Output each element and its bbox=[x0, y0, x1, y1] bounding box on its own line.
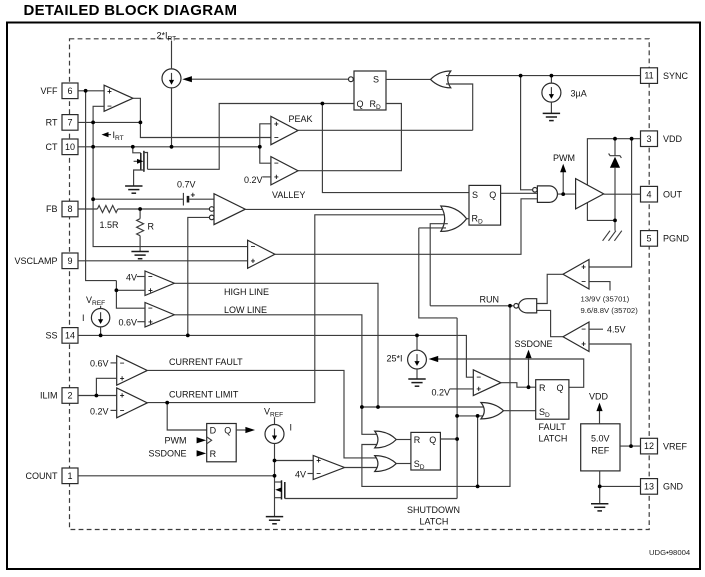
wire shutdown net to OR2 bbox=[419, 228, 457, 318]
label UDG-98004 bbox=[649, 548, 691, 557]
label 0.6V current fault threshold bbox=[90, 359, 109, 369]
pin 2 ILIM bbox=[40, 388, 78, 404]
wire CURRENT LIMIT output bbox=[147, 215, 448, 403]
svg-text:11: 11 bbox=[644, 71, 653, 81]
junction fault latch R / SSDONE arrow bbox=[527, 385, 531, 389]
wire latch U2 S input from OR bbox=[386, 78, 431, 80]
gate OR3 fault latch set OR bbox=[481, 403, 504, 419]
wire 0.2V stub to VALLEY bbox=[263, 176, 271, 178]
svg-text:SSDONE: SSDONE bbox=[515, 339, 553, 349]
wire lowline junction to fault OR input1 bbox=[362, 406, 487, 408]
wire UVLO threshold stub bbox=[589, 282, 610, 291]
junction SYNC line / AND clock branch bbox=[519, 74, 523, 78]
wire OR4 output bbox=[396, 439, 411, 441]
svg-text:12: 12 bbox=[644, 441, 654, 451]
junction oscillator Q / PWM latch S branch bbox=[321, 102, 325, 106]
svg-text:–: – bbox=[274, 159, 279, 168]
svg-text:8: 8 bbox=[67, 204, 72, 214]
gate OR5 shutdown latch S OR bbox=[375, 456, 397, 472]
svg-text:–: – bbox=[148, 272, 153, 281]
wire OR2 output to RD bbox=[467, 218, 469, 220]
wire 2*IRT label stem bbox=[171, 41, 173, 69]
transistor Q2 count discharge MOSFET bbox=[275, 476, 285, 517]
svg-text:HIGH LINE: HIGH LINE bbox=[224, 287, 269, 297]
label LATCH fault bbox=[539, 434, 568, 444]
wire VREF stem above I source bbox=[100, 306, 102, 309]
junction run net / shutdown OR branch bbox=[476, 485, 480, 489]
wire ref output to VREF pin bbox=[620, 445, 641, 447]
svg-text:–: – bbox=[148, 304, 153, 313]
svg-text:SSDONE: SSDONE bbox=[148, 449, 186, 459]
svg-text:ILIM: ILIM bbox=[40, 391, 58, 401]
wire ILIM pin bbox=[78, 395, 117, 397]
svg-text:Q: Q bbox=[429, 435, 436, 445]
wire OR5 output bbox=[396, 463, 411, 465]
svg-text:SS: SS bbox=[45, 331, 57, 341]
svg-text:LATCH: LATCH bbox=[539, 434, 568, 444]
comparator HIGH LINE body bbox=[145, 271, 174, 296]
wire CURRENT FAULT output bbox=[147, 370, 380, 458]
pin 12 VREF bbox=[641, 438, 688, 454]
wire OR3 output to fault latch SD bbox=[504, 410, 536, 412]
junction CT line / 2*IRT source bbox=[170, 145, 174, 149]
label VREF at soft start source bbox=[86, 295, 105, 307]
wire 0.6V stub bbox=[137, 321, 145, 323]
wire VFF pin to buffer input bbox=[78, 90, 104, 92]
pin 4 OUT bbox=[641, 186, 683, 202]
comparator VALLEY body bbox=[271, 157, 298, 185]
wire 4V stub bbox=[137, 276, 145, 278]
junction RUN line / down column bbox=[508, 304, 512, 308]
svg-text:+: + bbox=[581, 340, 586, 349]
svg-text:5: 5 bbox=[646, 234, 651, 244]
svg-text:6: 6 bbox=[67, 86, 72, 96]
ground under 3uA source bbox=[543, 113, 560, 120]
wire 2*IRT to CT bbox=[171, 88, 173, 147]
wire oscillator latch inverted output to 2*IRT with arrowhead bbox=[182, 76, 348, 82]
svg-text:COUNT: COUNT bbox=[26, 471, 58, 481]
IC boundary dashed box bbox=[70, 39, 650, 530]
junction COUNT line / count column bbox=[273, 474, 277, 478]
junction VDD line / UVLO sense bbox=[630, 137, 634, 141]
wire 4.5V output to NAND bbox=[537, 310, 563, 336]
current source I count body bbox=[265, 425, 284, 444]
junction 0.7V battery / feedback column bbox=[91, 197, 95, 201]
label 3uA bbox=[571, 89, 587, 99]
pin 11 SYNC bbox=[641, 68, 689, 84]
op-amp U3 error amplifier bbox=[209, 194, 245, 225]
wire fault latch Q to 25*I with arrowhead bbox=[429, 356, 584, 387]
svg-text:+: + bbox=[316, 456, 321, 465]
transistor Q1 CT discharge MOSFET bbox=[133, 147, 148, 186]
wire latch U2 Q to discharge MOSFET bbox=[148, 104, 355, 170]
battery 0.7V clamp bbox=[93, 191, 214, 206]
wire shutdown column bbox=[456, 318, 458, 499]
label HIGH LINE bbox=[224, 287, 269, 297]
label VREF count source bbox=[264, 407, 283, 419]
label CURRENT FAULT bbox=[169, 357, 243, 367]
svg-text:FB: FB bbox=[46, 204, 58, 214]
wire 0.2V stub ssdone bbox=[450, 388, 474, 390]
svg-text:+: + bbox=[274, 173, 279, 182]
wire shutdown latch Q bbox=[440, 438, 457, 440]
label PWM node with up arrow bbox=[553, 153, 575, 194]
svg-text:–: – bbox=[581, 277, 586, 286]
label IRT with left arrow bbox=[102, 130, 124, 142]
svg-text:PWM: PWM bbox=[165, 435, 187, 445]
wire fault OR input2 line bbox=[457, 415, 486, 417]
wire RUN down to shutdown logic bbox=[362, 306, 510, 487]
svg-text:S: S bbox=[472, 190, 478, 200]
wire SS pin line bbox=[78, 335, 473, 377]
wire VFF bracket to comparators bbox=[116, 281, 145, 309]
latch U5 PWM latch bbox=[469, 185, 501, 225]
svg-text:+: + bbox=[251, 256, 256, 265]
junction low line / fault OR input1 bbox=[360, 405, 364, 409]
junction PWM node bbox=[561, 192, 565, 196]
wire UVLO output to NAND bbox=[537, 274, 563, 303]
wire 4V comparator output bbox=[345, 467, 381, 469]
svg-text:OUT: OUT bbox=[663, 189, 683, 199]
wire LOW LINE output bbox=[174, 315, 380, 435]
wire RT pin bbox=[78, 121, 140, 123]
wire U1 output jog bbox=[133, 98, 141, 122]
wire VSCLAMP pin to buffer bbox=[78, 260, 248, 262]
gate AND1 output gate bbox=[533, 186, 558, 203]
svg-text:5.0V: 5.0V bbox=[591, 434, 610, 444]
ground under R bbox=[131, 252, 148, 259]
wire RUN to OR2 bbox=[430, 224, 448, 306]
svg-text:PWM: PWM bbox=[553, 153, 575, 163]
wire 0.6V stub cf bbox=[111, 362, 117, 364]
flip-flop U4 restart DFF bbox=[207, 424, 237, 462]
svg-text:0.2V: 0.2V bbox=[90, 407, 109, 417]
svg-text:–: – bbox=[120, 406, 125, 415]
junction VDD line / zener column bbox=[613, 137, 617, 141]
svg-text:VFF: VFF bbox=[41, 86, 59, 96]
pin 8 FB bbox=[46, 201, 78, 217]
svg-text:4: 4 bbox=[646, 189, 651, 199]
comparator 4.5V body bbox=[563, 322, 589, 352]
wire VFF sense down-column bbox=[86, 91, 117, 281]
zener diode D1 clamp bbox=[609, 139, 622, 231]
wire I source to SS line bbox=[100, 327, 102, 336]
label SSDONE reset input with arrow bbox=[148, 449, 206, 459]
gate OR4 shutdown latch R OR bbox=[375, 431, 397, 448]
junction shutdown latch Q / column bbox=[455, 437, 459, 441]
wire VDD pin rail bbox=[587, 139, 640, 221]
label 4.5V bbox=[607, 325, 626, 335]
pin 14 SS bbox=[45, 328, 78, 344]
wire 4V stub count bbox=[308, 473, 314, 475]
label 0.2V valley threshold bbox=[244, 175, 263, 185]
svg-text:3µA: 3µA bbox=[571, 89, 587, 99]
svg-text:+: + bbox=[120, 374, 125, 383]
svg-text:14: 14 bbox=[65, 331, 75, 341]
wire COUNT pin bbox=[78, 475, 275, 477]
wire FB pin to divider bbox=[78, 208, 97, 210]
wire 0.2V comparator output to fault latch R bbox=[501, 383, 536, 388]
svg-text:+: + bbox=[191, 191, 196, 200]
gate NAND1 RUN gate (faces left) bbox=[514, 299, 537, 313]
label RUN bbox=[480, 294, 500, 304]
label 0.2V current limit threshold bbox=[90, 407, 109, 417]
junction driver lower rail / ground bbox=[613, 219, 617, 223]
label VDD above ref with up arrow bbox=[589, 392, 609, 424]
wire count node to 4V comparator bbox=[275, 460, 314, 462]
pin 13 GND bbox=[641, 479, 684, 495]
svg-text:–: – bbox=[316, 469, 321, 478]
junction VFF bracket / high line plus bbox=[115, 288, 119, 292]
junction CT line / peak-valley bracket bbox=[258, 145, 262, 149]
wire sync to AND inverted input bbox=[521, 76, 533, 190]
wire U1 feedback to RT bbox=[93, 106, 248, 246]
junction FB divider tap bbox=[138, 207, 142, 211]
comparator 0.2V ssdone body bbox=[473, 370, 501, 396]
pin 7 RT bbox=[46, 115, 78, 131]
svg-text:VDD: VDD bbox=[589, 392, 609, 402]
resistor 1.5R bbox=[97, 206, 117, 213]
svg-text:REF: REF bbox=[591, 446, 610, 456]
ground under Q2 bbox=[266, 517, 283, 524]
svg-text:+: + bbox=[148, 317, 153, 326]
wire VSCLAMP output to PWM AND bbox=[275, 199, 538, 255]
svg-text:FAULT: FAULT bbox=[539, 422, 567, 432]
svg-text:0.6V: 0.6V bbox=[90, 359, 109, 369]
svg-text:–: – bbox=[274, 133, 279, 142]
svg-text:25*I: 25*I bbox=[387, 354, 403, 364]
svg-text:VALLEY: VALLEY bbox=[272, 190, 305, 200]
junction SS line / soft start source bbox=[99, 334, 103, 338]
svg-text:–: – bbox=[107, 102, 112, 111]
latch U8 fault latch bbox=[536, 380, 569, 420]
label 2*IRT bbox=[157, 31, 177, 43]
label UVLO threshold line1 bbox=[581, 295, 630, 304]
ground under ref bbox=[591, 504, 608, 511]
wire current limit to DFF D bbox=[167, 403, 207, 430]
label 0.7V bbox=[177, 180, 196, 190]
svg-text:Q: Q bbox=[489, 190, 496, 200]
comparator LOW LINE body bbox=[145, 303, 174, 328]
junction SS line / error amp input bbox=[186, 334, 190, 338]
wire VREF stem count source bbox=[274, 417, 276, 424]
junction SS line / 25*I source bbox=[415, 334, 419, 338]
amplifier U6 output driver bbox=[576, 179, 604, 209]
svg-text:PEAK: PEAK bbox=[289, 114, 313, 124]
wire count source down bbox=[274, 444, 276, 476]
svg-text:0.6V: 0.6V bbox=[119, 318, 138, 328]
title DETAILED BLOCK DIAGRAM bbox=[24, 2, 238, 19]
wire 4.5V threshold stub bbox=[589, 328, 603, 330]
svg-text:–: – bbox=[476, 373, 481, 382]
wire GND pin line bbox=[600, 485, 641, 487]
wire 3uA stem bbox=[550, 76, 552, 83]
wire 0.2V stub cl bbox=[111, 409, 117, 411]
svg-text:LOW LINE: LOW LINE bbox=[224, 305, 267, 315]
svg-text:VDD: VDD bbox=[663, 134, 683, 144]
junction ref ground leg / GND line bbox=[598, 485, 602, 489]
label SSDONE node with up arrow bbox=[515, 339, 553, 387]
svg-text:R: R bbox=[148, 222, 155, 232]
label 0.2V ssdone threshold bbox=[432, 387, 451, 397]
wire bracket stub to HIGH LINE plus bbox=[116, 289, 145, 291]
svg-text:+: + bbox=[120, 391, 125, 400]
wire latch U2 RD from VALLEY bbox=[298, 104, 401, 171]
svg-text:CT: CT bbox=[46, 142, 58, 152]
pin 5 PGND bbox=[641, 231, 690, 247]
wire CT pin bbox=[78, 146, 260, 148]
svg-text:SYNC: SYNC bbox=[663, 71, 689, 81]
label LATCH shutdown bbox=[420, 517, 449, 527]
label 1.5R bbox=[100, 220, 120, 230]
svg-text:–: – bbox=[120, 358, 125, 367]
label VALLEY bbox=[272, 190, 305, 200]
svg-text:7: 7 bbox=[67, 118, 72, 128]
wire VDD sense to UVLO bbox=[589, 139, 632, 267]
svg-text:PGND: PGND bbox=[663, 234, 690, 244]
label PWM clock input with arrow bbox=[165, 435, 207, 445]
latch U2 oscillator SR latch bbox=[349, 71, 387, 111]
wire DFF Q output arrow to count source bbox=[236, 427, 255, 433]
label 4V high line threshold bbox=[126, 272, 137, 282]
svg-text:10: 10 bbox=[65, 142, 75, 152]
svg-text:R: R bbox=[414, 435, 421, 445]
wire PEAK output bbox=[298, 129, 473, 131]
comparator CURRENT LIMIT body bbox=[117, 388, 148, 418]
svg-text:+: + bbox=[148, 286, 153, 295]
svg-text:D: D bbox=[210, 425, 217, 435]
wire divider tap to error amp bbox=[118, 208, 210, 210]
junction run branch / fault OR input2 bbox=[476, 414, 480, 418]
junction RT line / buffer output bbox=[139, 121, 143, 125]
junction shutdown column / fault OR input2 bbox=[455, 414, 459, 418]
gate OR1 sync/peak OR body (faces left) bbox=[431, 71, 451, 88]
wire OR2 input4 stub bbox=[419, 227, 446, 229]
svg-text:RUN: RUN bbox=[480, 294, 500, 304]
svg-text:4V: 4V bbox=[295, 469, 306, 479]
current source 2*IRT body bbox=[162, 69, 181, 88]
gate OR2 PWM reset OR bbox=[441, 206, 467, 231]
wire 3uA to ground bbox=[550, 102, 552, 113]
op-amp U1 VFF buffer body bbox=[104, 85, 133, 111]
wire SYNC pin to OR1 bbox=[446, 75, 641, 77]
label I count source bbox=[290, 423, 293, 433]
wire oscillator clock branch to PWM latch S bbox=[322, 104, 469, 193]
svg-text:CURRENT LIMIT: CURRENT LIMIT bbox=[169, 390, 239, 400]
svg-text:CURRENT FAULT: CURRENT FAULT bbox=[169, 357, 243, 367]
wire 4.5V plus from VREF bbox=[589, 344, 631, 446]
svg-text:3: 3 bbox=[646, 134, 651, 144]
wire OR1 lower input from PEAK bbox=[446, 84, 473, 130]
label 25*I bbox=[387, 354, 403, 364]
wire HIGH LINE output bbox=[174, 283, 378, 407]
svg-text:DETAILED BLOCK DIAGRAM: DETAILED BLOCK DIAGRAM bbox=[24, 2, 238, 19]
label LOW LINE bbox=[224, 305, 267, 315]
current source 25*I body bbox=[408, 350, 427, 369]
junction CT line / feedback column bbox=[91, 145, 95, 149]
wire PWM latch Q to AND bbox=[501, 192, 538, 194]
svg-text:I: I bbox=[82, 313, 85, 323]
svg-text:+: + bbox=[581, 263, 586, 272]
junction count node / 4V comparator bbox=[273, 459, 277, 463]
comparator VSCLAMP body bbox=[248, 240, 275, 268]
current source I soft start body bbox=[91, 309, 109, 327]
wire Q2 gate from shutdown latch bbox=[285, 498, 457, 500]
wire run branch up to fault OR bbox=[477, 416, 479, 487]
comparator CURRENT FAULT body bbox=[117, 356, 148, 386]
label PEAK bbox=[289, 114, 313, 124]
svg-text:13/9V (35701): 13/9V (35701) bbox=[581, 295, 630, 304]
comparator PEAK body bbox=[271, 116, 298, 144]
label R bbox=[148, 222, 155, 232]
svg-text:–: – bbox=[581, 325, 586, 334]
wire driver output to OUT pin bbox=[604, 193, 641, 195]
latch U7 shutdown latch bbox=[411, 432, 441, 471]
svg-text:LATCH: LATCH bbox=[420, 517, 449, 527]
ground under 25*I bbox=[408, 379, 425, 386]
svg-text:Q: Q bbox=[557, 383, 564, 393]
svg-text:VSCLAMP: VSCLAMP bbox=[14, 256, 57, 266]
block 5.0V REF bbox=[581, 424, 620, 471]
svg-text:+: + bbox=[476, 385, 481, 394]
svg-text:SHUTDOWN: SHUTDOWN bbox=[407, 505, 460, 515]
junction RT line / feedback column bbox=[91, 121, 95, 125]
pin 6 VFF bbox=[41, 83, 79, 99]
svg-text:R: R bbox=[539, 383, 546, 393]
label SHUTDOWN bbox=[407, 505, 460, 515]
svg-text:0.2V: 0.2V bbox=[432, 387, 451, 397]
label FAULT bbox=[539, 422, 567, 432]
current source 3uA body bbox=[542, 83, 561, 102]
svg-text:GND: GND bbox=[663, 482, 684, 492]
pin 3 VDD bbox=[641, 131, 683, 147]
comparator UVLO body bbox=[563, 260, 589, 290]
pin 10 CT bbox=[46, 139, 79, 155]
svg-text:UDG•98004: UDG•98004 bbox=[649, 548, 691, 557]
wire RUN line bbox=[430, 305, 514, 307]
junction CT line / Q1 gate bbox=[131, 145, 135, 149]
svg-text:Q: Q bbox=[224, 425, 231, 435]
svg-text:9.6/8.8V (35702): 9.6/8.8V (35702) bbox=[581, 306, 639, 315]
label CURRENT LIMIT bbox=[169, 390, 239, 400]
svg-text:Q: Q bbox=[357, 99, 364, 109]
svg-text:1: 1 bbox=[67, 471, 72, 481]
svg-text:13: 13 bbox=[644, 482, 654, 492]
label I at soft start source bbox=[82, 313, 85, 323]
label 4V count threshold bbox=[295, 469, 306, 479]
svg-text:RT: RT bbox=[46, 118, 58, 128]
wire AND output to driver bbox=[558, 193, 576, 195]
wire ref ground leg bbox=[599, 471, 601, 504]
label UVLO threshold line2 bbox=[581, 306, 639, 315]
svg-text:9: 9 bbox=[67, 256, 72, 266]
svg-text:VREF: VREF bbox=[663, 441, 688, 451]
svg-text:0.7V: 0.7V bbox=[177, 180, 196, 190]
svg-text:+: + bbox=[274, 119, 279, 128]
chassis ground under driver bbox=[603, 231, 622, 241]
svg-text:4V: 4V bbox=[126, 272, 137, 282]
svg-text:1.5R: 1.5R bbox=[100, 220, 120, 230]
svg-text:0.2V: 0.2V bbox=[244, 175, 263, 185]
wire IRT level to PEAK inverting input bbox=[140, 122, 271, 137]
junction SYNC line / 3uA source bbox=[550, 74, 554, 78]
svg-text:I: I bbox=[290, 423, 293, 433]
svg-text:–: – bbox=[251, 242, 256, 251]
svg-text:2: 2 bbox=[67, 391, 72, 401]
wire 25*I to ground bbox=[416, 369, 418, 379]
junction ILIM line / fault bracket bbox=[95, 394, 99, 398]
junction high line / fault OR input1 bbox=[376, 405, 380, 409]
